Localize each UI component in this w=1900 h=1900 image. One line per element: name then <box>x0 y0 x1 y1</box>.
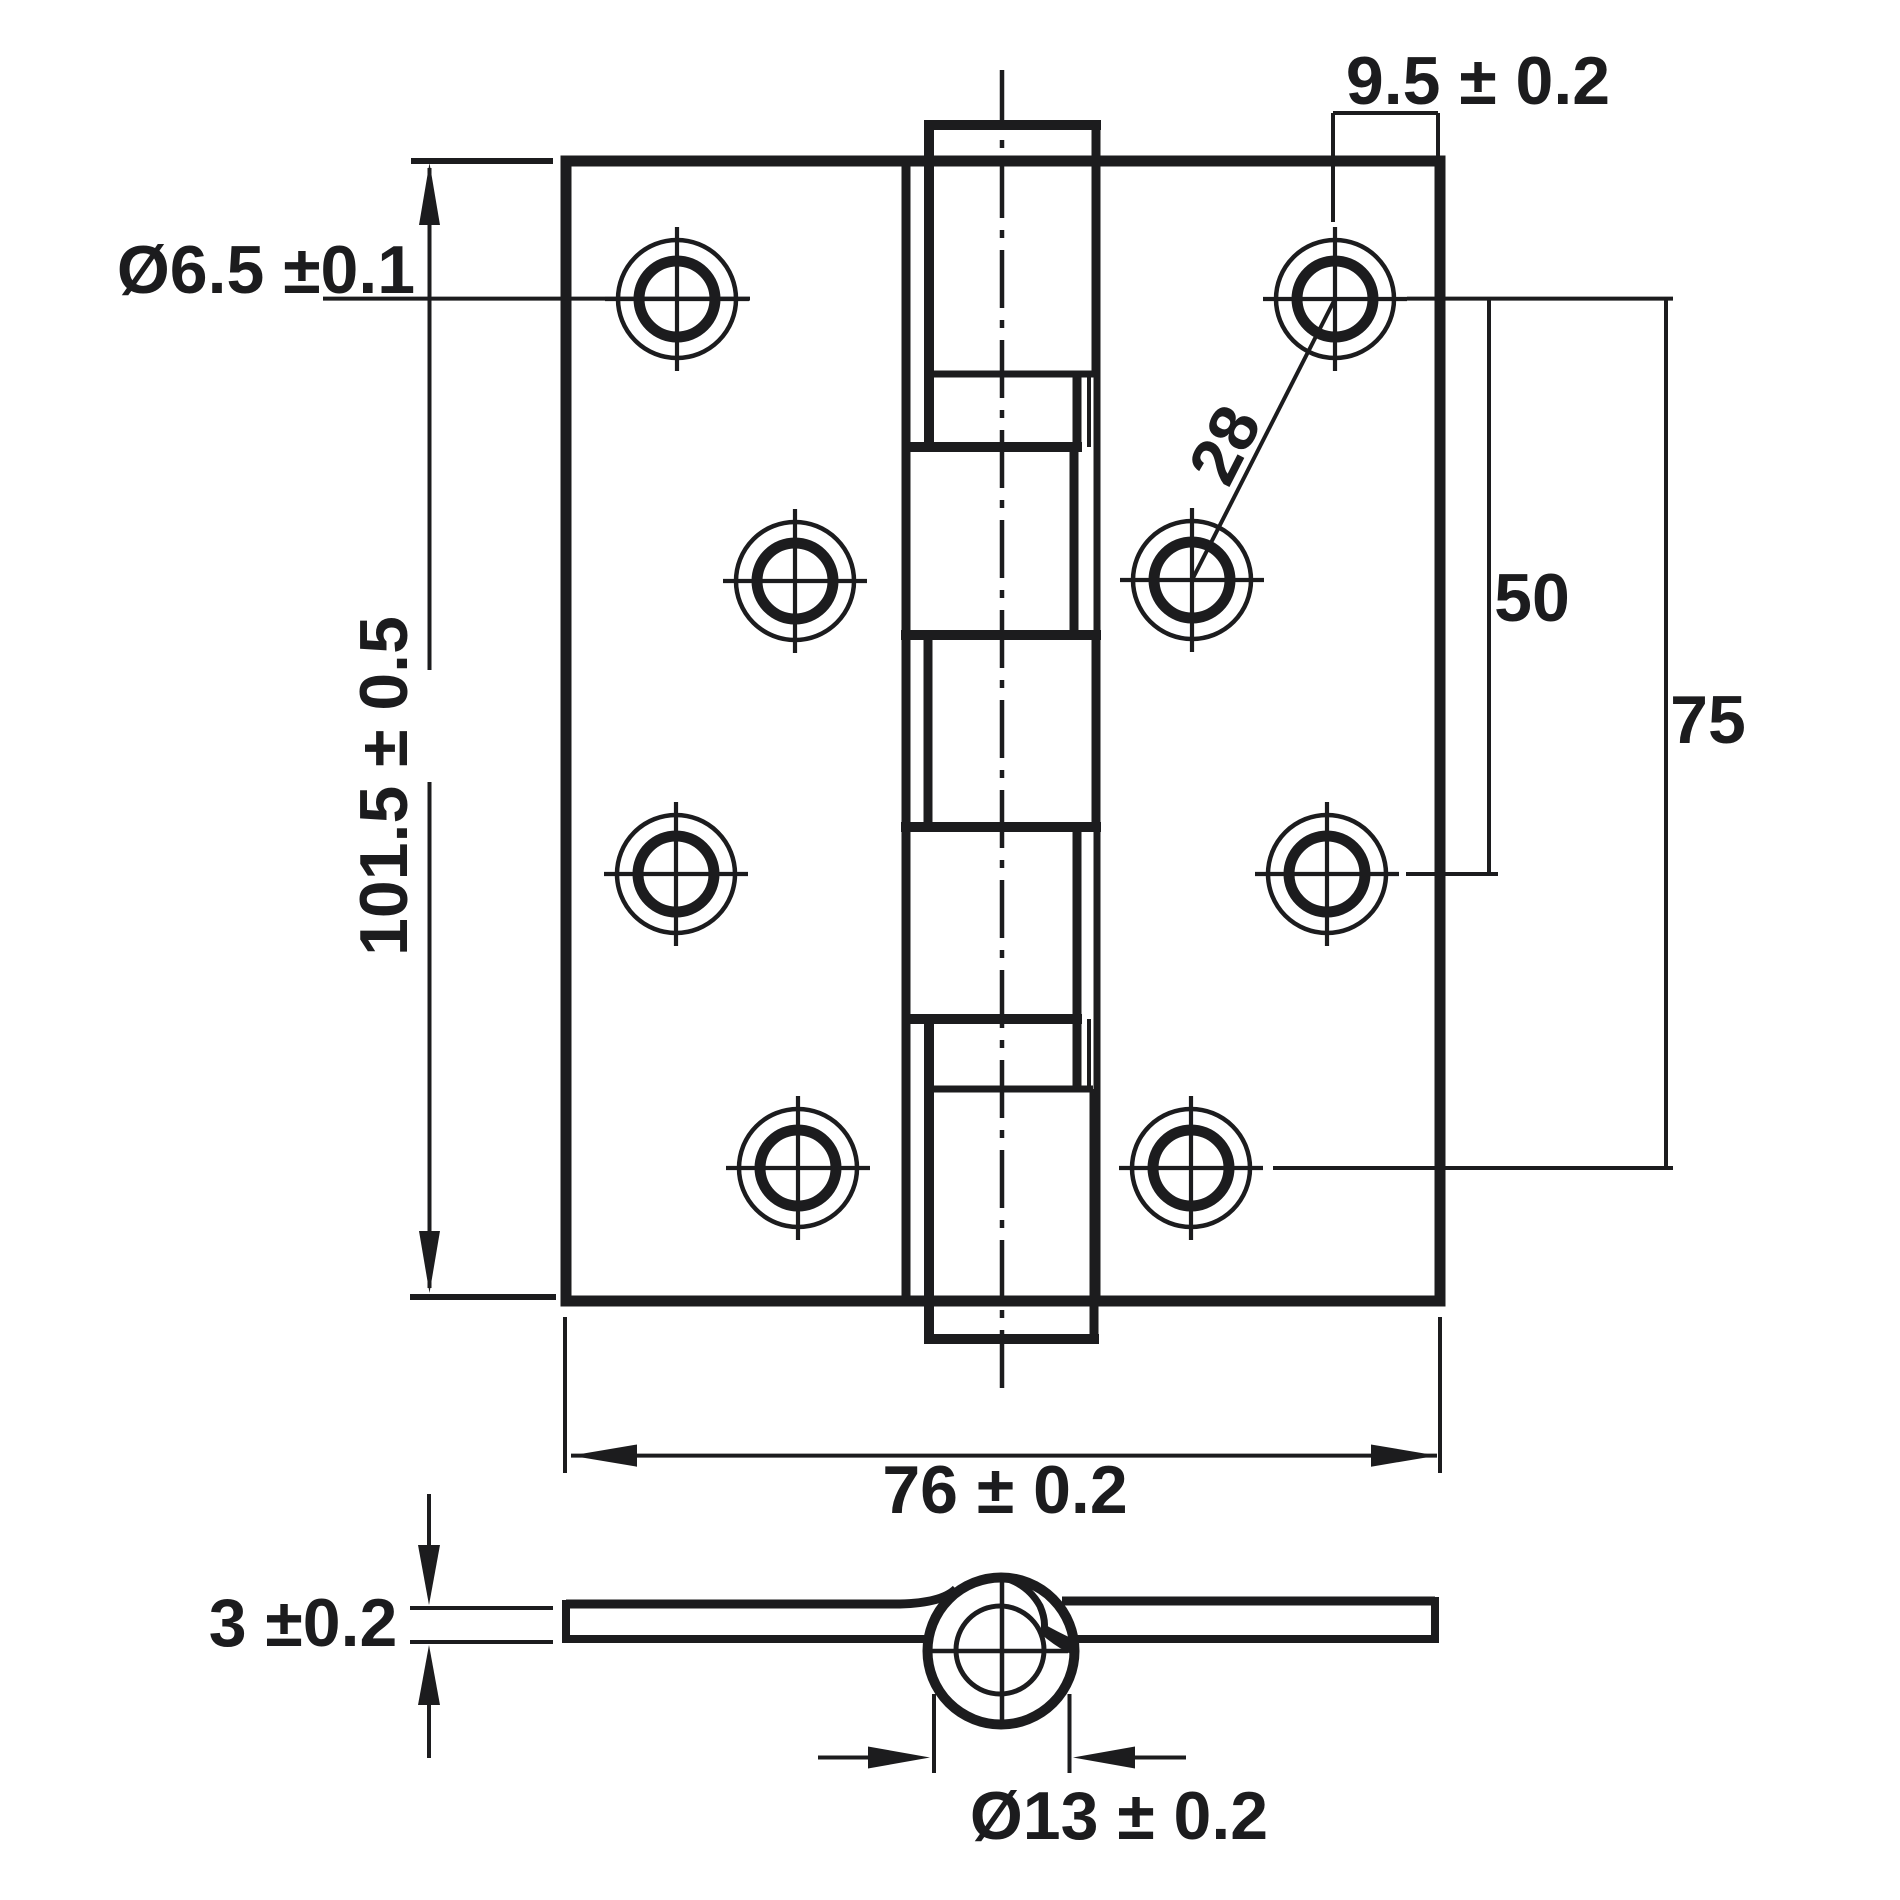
dimension 75 line <box>1273 299 1673 1168</box>
svg-text:Ø13 ± 0.2: Ø13 ± 0.2 <box>970 1778 1268 1854</box>
dimension 28 leader line <box>1192 299 1335 580</box>
dimension 101.5 line with arrows <box>410 161 556 1297</box>
screw hole B3 (right, third row) <box>1255 802 1399 946</box>
knuckle segment 3 (middle, right leaf) <box>928 635 1096 827</box>
svg-text:9.5 ± 0.2: 9.5 ± 0.2 <box>1346 43 1610 119</box>
side view pin hole inner circle <box>956 1606 1044 1694</box>
label 3 ±0.2 <box>209 1585 398 1661</box>
dimension 9.5 bracket <box>1333 113 1438 222</box>
hinge leaf outline (front view plate) <box>566 161 1440 1301</box>
side view knuckle barrel outer circle <box>928 1578 1075 1725</box>
label 9.5 ± 0.2 <box>1346 43 1610 119</box>
knuckle joint line 2 <box>901 630 1101 640</box>
side view barrel crosshair <box>930 1573 1068 1725</box>
screw hole B1 (top right) <box>1263 227 1407 371</box>
svg-text:75: 75 <box>1670 682 1746 758</box>
knuckle segment 1 (top cap) <box>924 120 1101 447</box>
side view curled sheet end (hook) <box>1041 1623 1075 1656</box>
hinge pin centerline (dash-dot) <box>1000 70 1005 1392</box>
label 28 (rotated) <box>1174 394 1276 496</box>
svg-text:76 ± 0.2: 76 ± 0.2 <box>882 1452 1127 1528</box>
dimension 50 line <box>1406 299 1498 874</box>
screw hole A1 (top left) <box>605 227 749 371</box>
knuckle joint line 4 <box>902 1014 1082 1024</box>
svg-text:50: 50 <box>1494 560 1570 636</box>
left leaf bend line <box>902 161 911 1301</box>
label 76 ± 0.2 <box>882 1452 1127 1528</box>
right leaf bend line <box>1094 161 1101 1301</box>
knuckle segment 2 (left leaf) <box>1070 447 1079 635</box>
side view left leaf cross-section <box>566 1589 956 1643</box>
side view right leaf cross-section <box>1062 1597 1435 1643</box>
dimension 3 (plate thickness) <box>410 1494 553 1758</box>
knuckle joint line 1 <box>902 442 1082 452</box>
side view curled sheet wrap line <box>1002 1577 1045 1630</box>
knuckle joint line 3 <box>901 822 1101 832</box>
label 75 <box>1670 682 1746 758</box>
dimension 76 line with arrows <box>565 1317 1440 1473</box>
screw hole B2 (right, second row) <box>1120 508 1264 652</box>
dimension leader line for hole diameter 6.5 <box>323 297 750 301</box>
screw hole A2 (left, second row) <box>723 509 867 653</box>
knuckle segment 5 (bottom cap) <box>924 1019 1099 1344</box>
label Ø6.5 ±0.1 <box>117 232 415 308</box>
knuckle segment 4 (left leaf) <box>1073 827 1082 1019</box>
svg-text:101.5 ± 0.5: 101.5 ± 0.5 <box>346 616 422 956</box>
label 50 <box>1494 560 1570 636</box>
screw hole A4 (bottom left) <box>726 1096 870 1240</box>
screw hole A3 (left, third row) <box>604 802 748 946</box>
label 101.5 ± 0.5 (rotated) <box>346 616 422 956</box>
dimension 13 (barrel diameter) <box>818 1694 1186 1773</box>
label Ø13 ± 0.2 <box>970 1778 1268 1854</box>
svg-text:Ø6.5 ±0.1: Ø6.5 ±0.1 <box>117 232 415 308</box>
screw hole B4 (bottom right) <box>1119 1096 1263 1240</box>
svg-text:3 ±0.2: 3 ±0.2 <box>209 1585 398 1661</box>
